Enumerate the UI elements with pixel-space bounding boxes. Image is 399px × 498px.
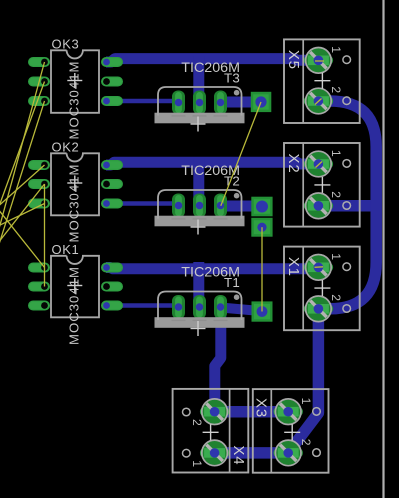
triac T1 package outline — [158, 292, 242, 321]
airwire OK2 pin2 to left — [0, 184, 45, 248]
svg-text:X2: X2 — [285, 154, 302, 174]
wire pad PA (row2 main) — [251, 197, 272, 217]
OK1 pad 1 (left) — [28, 263, 50, 273]
X3 pin 2 number — [299, 439, 313, 446]
T2 pad 1 — [172, 194, 185, 218]
X3 pin 1 circle mark — [313, 408, 321, 416]
airwire wire pad PB to wire pad PD — [261, 227, 263, 311]
T2 lead slot marks — [172, 218, 228, 220]
svg-text:MOC3041M: MOC3041M — [66, 61, 81, 140]
X1 pin 2 circle mark — [343, 305, 351, 313]
X3 origin cross — [284, 424, 300, 440]
optocoupler OK2 package outline — [51, 153, 99, 215]
X4 pad 1 — [200, 440, 229, 466]
OK2 pad 3 (left) — [28, 199, 50, 209]
OK3 pad 6 (right) — [101, 96, 123, 106]
OK3 pad 2 (left) — [28, 77, 50, 87]
X4 pin 2 number — [190, 419, 204, 426]
T1 pad 1 — [172, 295, 185, 319]
triac T2 package outline — [158, 190, 242, 219]
X1 pad 1 — [304, 254, 333, 280]
X5 pin 2 circle mark — [343, 97, 351, 105]
svg-text:2: 2 — [329, 191, 343, 198]
T3 name label — [224, 71, 240, 86]
X1 pin 1 number — [329, 253, 343, 260]
X4 name label — [230, 445, 247, 465]
X3 pad 1 — [274, 399, 303, 425]
airwire OK3 pin3 to left — [0, 101, 45, 260]
X4 pad 2 — [200, 399, 229, 425]
terminal block X5 outline — [284, 39, 360, 123]
X1 divider line — [302, 247, 304, 331]
svg-text:1: 1 — [299, 398, 313, 405]
airwire OK1 pin1 to left — [0, 204, 45, 268]
X5 pin 1 circle mark — [343, 56, 351, 64]
T2 pad 2 — [193, 194, 206, 218]
optocoupler OK1 package outline — [51, 256, 99, 317]
svg-text:MOC3041M: MOC3041M — [66, 266, 81, 345]
X3 divider line — [270, 389, 272, 473]
X2 pad 2 — [304, 193, 333, 219]
X2 pin 2 number — [329, 191, 343, 198]
X5 origin cross — [314, 73, 330, 89]
T2 name label — [224, 174, 240, 189]
T1 lead slot marks — [172, 319, 228, 321]
T2 origin cross — [191, 220, 206, 235]
svg-text:2: 2 — [299, 439, 313, 446]
wire pad PD (row1 main) — [252, 301, 273, 321]
X3 pin 2 circle mark — [313, 449, 321, 457]
svg-text:X4: X4 — [230, 445, 247, 465]
X1 pin 1 circle mark — [343, 263, 351, 271]
X4 pin 1 circle mark — [183, 449, 191, 457]
X4 origin cross — [203, 424, 219, 440]
airwire OK2 pin3 to left — [0, 204, 45, 229]
OK1 value label MOC3041M — [66, 266, 81, 345]
X4 pin 2 circle mark — [183, 408, 191, 416]
T3 pin1 marker dot — [234, 90, 240, 96]
wire X1 pad2 down to X3 pad2 — [288, 309, 318, 453]
OK3 value label MOC3041M — [66, 61, 81, 140]
svg-text:2: 2 — [190, 419, 204, 426]
airwire OK3 pin1 to left — [0, 62, 45, 247]
svg-text:X3: X3 — [253, 398, 270, 418]
T2 value label TIC206M — [181, 162, 240, 178]
wire T1 pad3 down to X4 pad2 — [215, 302, 221, 412]
X3 pad 2 — [274, 440, 303, 466]
OK1 pad 3 (left) — [28, 301, 50, 311]
T3 pad 2 — [193, 91, 206, 115]
T3 lead slot marks — [172, 115, 228, 117]
X2 pin 1 circle mark — [343, 160, 351, 168]
wire junction drop to T3 pad2 — [193, 56, 204, 103]
triac T3 heatsink bar — [155, 113, 245, 124]
T3 pad 1 — [172, 91, 185, 115]
X5 divider line — [302, 39, 304, 123]
OK3 origin cross — [67, 73, 82, 88]
T2 pin1 marker dot — [234, 193, 240, 199]
svg-text:MOC3041M: MOC3041M — [66, 164, 81, 243]
wire T1 pad3 to wire pad PD — [221, 308, 262, 312]
optocoupler OK3 package outline — [51, 50, 99, 113]
X1 origin cross — [314, 280, 330, 296]
wire OK1 pin1 to X1 pad1 (lower horizontal trace) — [106, 267, 318, 269]
T2 pad 3 — [214, 194, 227, 218]
X5 pin 1 number — [329, 46, 343, 53]
svg-text:2: 2 — [329, 86, 343, 93]
terminal block X2 outline — [284, 143, 360, 227]
triac T2 heatsink bar — [155, 216, 245, 227]
wire junction drop to T1 pad2 — [193, 262, 204, 307]
OK1 pad 4 (right) — [101, 263, 123, 273]
triac T3 package outline — [158, 87, 242, 116]
OK2 name label — [52, 140, 80, 155]
X3 name label — [253, 398, 270, 418]
svg-text:X5: X5 — [285, 50, 302, 70]
OK2 pad 4 (right) — [101, 160, 123, 170]
OK1 name label — [52, 242, 80, 257]
T3 pad 3 — [214, 91, 227, 115]
svg-text:1: 1 — [329, 253, 343, 260]
OK1 pad 6 (right) — [101, 301, 123, 311]
OK1 pad 5 (right) — [101, 282, 123, 292]
svg-text:OK2: OK2 — [52, 140, 80, 155]
OK3 pad 4 (right) — [101, 57, 123, 67]
X2 pin 2 circle mark — [343, 202, 351, 210]
T3 origin cross — [191, 117, 206, 132]
airwire OK2 pin1 to left — [0, 165, 45, 210]
terminal block X4 outline — [173, 389, 249, 473]
svg-text:X1: X1 — [285, 257, 302, 277]
svg-text:OK3: OK3 — [52, 37, 80, 52]
OK2 pad 2 (left) — [28, 179, 50, 189]
terminal block X3 outline — [253, 389, 329, 473]
wire X4 pad1 to X3 pad2 — [215, 447, 289, 459]
wire OK3 pin3 to T3 pad1 (gate trace) — [107, 101, 179, 103]
svg-text:1: 1 — [329, 46, 343, 53]
T1 name label — [224, 275, 240, 290]
airwire stub X1 pad1 — [315, 266, 324, 269]
T1 pin1 marker dot — [234, 294, 240, 300]
X2 name label — [285, 154, 302, 174]
X2 pin 1 number — [329, 150, 343, 157]
OK3 pad 3 (left) — [28, 96, 50, 106]
X4 divider line — [229, 389, 231, 473]
wire T2 pad3 to wire pad PA — [221, 201, 263, 212]
wire OK2 pin1 to X2 pad1 (middle horizontal trace) — [106, 162, 318, 165]
wire X2 pad2 to right bus — [318, 200, 372, 212]
X1 name label — [285, 257, 302, 277]
svg-text:T1: T1 — [224, 275, 240, 290]
X4 pin 1 number — [190, 460, 204, 467]
OK2 pad 5 (right) — [101, 179, 123, 189]
X5 pad 2 — [304, 88, 333, 114]
board outline right edge — [382, 0, 384, 498]
airwire wire pad P3 to T2 pad3 — [221, 102, 261, 206]
wire OK1 pin3 to T1 pad1 (gate trace) — [107, 306, 179, 308]
OK3 pad 5 (right) — [101, 77, 123, 87]
wire junction drop to T2 pad2 — [193, 159, 204, 206]
X3 pin 1 number — [299, 398, 313, 405]
X2 divider line — [302, 143, 304, 227]
X1 pad 2 — [304, 296, 333, 322]
X2 pad 1 — [304, 151, 333, 177]
wire pad PB (row2 aux) — [251, 218, 272, 237]
T1 origin cross — [191, 321, 206, 336]
OK2 pad 1 (left) — [28, 160, 50, 170]
svg-text:1: 1 — [329, 150, 343, 157]
OK2 value label MOC3041M — [66, 164, 81, 243]
wire OK2 pin3 to T2 pad1 (gate trace) — [107, 204, 179, 206]
T1 value label TIC206M — [181, 264, 240, 280]
terminal block X1 outline — [284, 247, 360, 331]
svg-text:OK1: OK1 — [52, 242, 80, 257]
OK2 pad 6 (right) — [101, 199, 123, 209]
wire OK3 pin1 to X5 pad1 (top horizontal trace) — [106, 59, 318, 62]
T1 pad 3 — [214, 295, 227, 319]
wire X4 pad2 to X3 pad1 — [215, 406, 289, 418]
X5 name label — [285, 50, 302, 70]
airwire OK1 pin2 to OK2 pin2 — [44, 184, 46, 287]
OK1 origin cross — [67, 278, 82, 293]
OK3 pad 1 (left) — [28, 57, 50, 67]
svg-text:1: 1 — [190, 460, 204, 467]
OK3 name label — [52, 37, 80, 52]
svg-text:T3: T3 — [224, 71, 240, 86]
triac T1 heatsink bar — [155, 317, 245, 328]
X5 pad 1 — [304, 48, 333, 74]
wire T3 pad3 to wire pad P3 — [221, 97, 262, 108]
X2 origin cross — [314, 177, 330, 193]
airwire OK3 pin2 to left — [0, 82, 45, 221]
OK2 origin cross — [67, 176, 82, 191]
svg-text:2: 2 — [329, 294, 343, 301]
X5 pin 2 number — [329, 86, 343, 93]
wire pad P3 (gate net row3) — [251, 92, 271, 112]
T3 value label TIC206M — [181, 59, 240, 75]
T1 pad 2 — [193, 295, 206, 319]
airwire stub X5 pad2 — [315, 99, 322, 105]
X1 pin 2 number — [329, 294, 343, 301]
wire right bus X5 pad2 to X1 pad2 (arcs along board edge) — [318, 101, 376, 309]
airwire stub X5 pad1 — [315, 60, 324, 62]
OK1 pad 2 (left) — [28, 282, 50, 292]
airwire stub X2 pad1 — [316, 162, 323, 168]
